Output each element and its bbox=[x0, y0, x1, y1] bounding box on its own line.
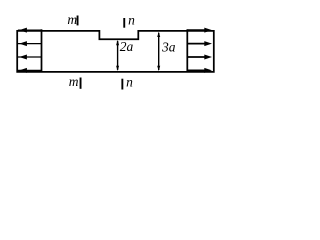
svg-text:n: n bbox=[128, 12, 135, 27]
dimension arrow 3a bbox=[157, 32, 160, 71]
svg-text:m: m bbox=[69, 74, 79, 89]
right load arrow 4 bbox=[187, 68, 212, 73]
right load arrow 2 bbox=[187, 41, 212, 46]
svg-text:m: m bbox=[67, 12, 77, 27]
left load arrow 1 bbox=[18, 28, 42, 33]
section m-m top tick bbox=[77, 16, 79, 26]
dimension arrow 2a bbox=[116, 40, 119, 71]
section n-n top tick bbox=[123, 18, 125, 28]
left load arrow 3 bbox=[18, 55, 42, 60]
right load arrow 3 bbox=[187, 55, 212, 60]
left load arrow 4 bbox=[18, 68, 42, 73]
section n-n bottom tick bbox=[121, 79, 123, 90]
left load comb tail line bbox=[41, 29, 43, 71]
left load arrow 2 bbox=[18, 41, 42, 46]
right load arrow 1 bbox=[187, 28, 212, 33]
svg-text:3a: 3a bbox=[161, 39, 176, 54]
right load comb tail line bbox=[186, 29, 188, 71]
svg-text:2a: 2a bbox=[120, 39, 134, 54]
svg-text:n: n bbox=[126, 75, 133, 90]
bar outline with notch bbox=[17, 31, 214, 72]
section m-m bottom tick bbox=[80, 78, 82, 89]
